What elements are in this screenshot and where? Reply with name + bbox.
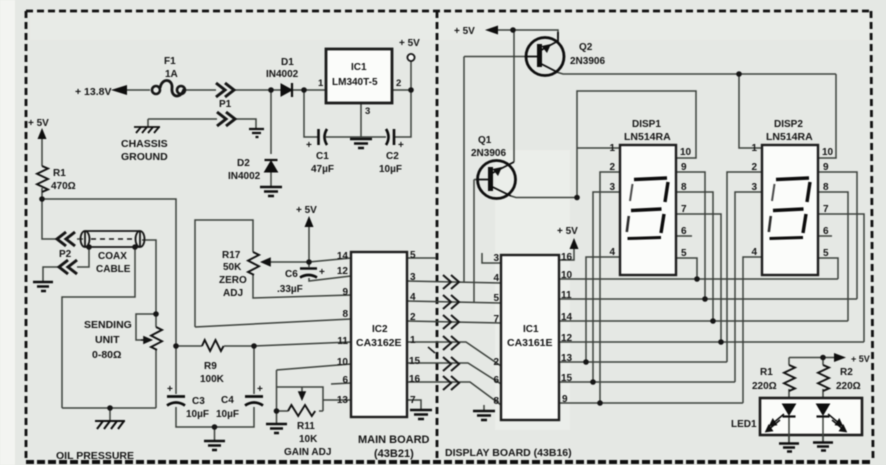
svg-text:8: 8 [823, 182, 829, 193]
svg-text:R1: R1 [53, 168, 66, 179]
svg-text:CHASSIS: CHASSIS [121, 138, 168, 150]
svg-text:R17: R17 [222, 250, 241, 261]
svg-text:9: 9 [562, 394, 568, 405]
svg-text:1: 1 [410, 335, 416, 346]
svg-text:470Ω: 470Ω [51, 181, 76, 192]
svg-text:CABLE: CABLE [96, 264, 131, 275]
svg-text:12: 12 [337, 266, 349, 277]
svg-text:+ 5V: + 5V [296, 205, 317, 216]
svg-text:+ 5V: + 5V [454, 26, 475, 37]
svg-text:2N3906: 2N3906 [570, 56, 605, 67]
svg-text:P1: P1 [219, 99, 232, 110]
svg-text:50K: 50K [223, 262, 242, 273]
svg-text:3: 3 [410, 272, 416, 283]
svg-text:IN4002: IN4002 [228, 171, 261, 182]
svg-text:+: + [306, 140, 312, 151]
svg-text:1: 1 [609, 143, 615, 154]
svg-text:14: 14 [337, 251, 349, 262]
svg-text:4: 4 [751, 247, 757, 258]
svg-text:9: 9 [681, 162, 687, 173]
svg-text:.33µF: .33µF [277, 284, 303, 295]
svg-text:8: 8 [681, 182, 687, 193]
svg-text:3: 3 [609, 182, 615, 193]
svg-text:47µF: 47µF [311, 164, 334, 175]
svg-text:IC2: IC2 [372, 324, 388, 335]
svg-text:UNIT: UNIT [95, 334, 120, 346]
svg-text:220Ω: 220Ω [836, 381, 861, 392]
svg-text:SENDING: SENDING [84, 319, 132, 331]
svg-text:16: 16 [561, 252, 573, 263]
svg-text:5: 5 [823, 248, 829, 259]
svg-text:ZERO: ZERO [219, 275, 247, 286]
svg-text:ADJ: ADJ [223, 288, 243, 299]
svg-text:LN514RA: LN514RA [624, 131, 671, 143]
svg-text:7: 7 [493, 314, 499, 325]
svg-text:IC1: IC1 [351, 62, 367, 73]
svg-text:12: 12 [561, 333, 573, 344]
svg-text:+: + [257, 384, 263, 395]
svg-text:6: 6 [823, 226, 829, 237]
svg-text:6: 6 [342, 375, 348, 386]
svg-text:C1: C1 [316, 151, 329, 162]
svg-text:4: 4 [493, 273, 499, 284]
svg-text:1: 1 [318, 78, 324, 89]
svg-text:6: 6 [681, 226, 687, 237]
svg-text:1A: 1A [165, 69, 178, 80]
svg-text:(43B21): (43B21) [374, 448, 414, 460]
svg-text:13: 13 [561, 353, 573, 364]
svg-text:2: 2 [493, 357, 499, 368]
svg-text:R1: R1 [760, 367, 773, 378]
svg-text:7: 7 [681, 204, 687, 215]
svg-text:R9: R9 [204, 361, 217, 372]
svg-text:C2: C2 [386, 151, 399, 162]
svg-text:2: 2 [751, 162, 757, 173]
svg-text:7: 7 [410, 395, 416, 406]
svg-text:OIL PRESSURE: OIL PRESSURE [56, 450, 134, 462]
svg-text:IC1: IC1 [523, 324, 539, 335]
svg-text:C4: C4 [221, 395, 234, 406]
svg-text:Q1: Q1 [478, 135, 492, 146]
svg-text:10: 10 [561, 270, 573, 281]
svg-text:220Ω: 220Ω [752, 381, 777, 392]
svg-text:F1: F1 [164, 56, 176, 67]
svg-text:+: + [167, 384, 173, 395]
svg-text:C6: C6 [285, 269, 298, 280]
svg-text:2: 2 [609, 162, 615, 173]
svg-text:10: 10 [337, 357, 349, 368]
svg-text:LN514RA: LN514RA [766, 131, 813, 143]
svg-text:0-80Ω: 0-80Ω [92, 349, 121, 361]
svg-text:10: 10 [680, 147, 692, 158]
svg-text:COAX: COAX [98, 251, 127, 262]
svg-text:10: 10 [822, 147, 834, 158]
svg-text:DISP1: DISP1 [632, 119, 661, 130]
svg-text:+ 5V: + 5V [557, 226, 578, 237]
svg-text:2: 2 [410, 312, 416, 323]
svg-text:R2: R2 [840, 367, 853, 378]
svg-text:5: 5 [681, 248, 687, 259]
svg-text:8: 8 [342, 309, 348, 320]
svg-text:2N3906: 2N3906 [471, 148, 506, 159]
svg-text:+ 5V: + 5V [851, 354, 870, 364]
svg-text:10K: 10K [299, 434, 318, 445]
svg-text:+ 5V: + 5V [399, 38, 420, 49]
svg-text:9: 9 [342, 287, 348, 298]
svg-text:100K: 100K [200, 374, 225, 385]
svg-text:GROUND: GROUND [121, 151, 168, 163]
svg-text:MAIN BOARD: MAIN BOARD [358, 434, 430, 446]
svg-text:DISP2: DISP2 [774, 119, 803, 130]
svg-text:15: 15 [409, 356, 421, 367]
svg-text:3: 3 [493, 253, 499, 264]
svg-text:4: 4 [410, 292, 416, 303]
svg-text:+ 13.8V: + 13.8V [75, 86, 112, 98]
svg-text:10µF: 10µF [186, 409, 209, 420]
svg-text:5: 5 [410, 250, 416, 261]
svg-text:11: 11 [337, 336, 348, 347]
svg-text:13: 13 [337, 395, 349, 406]
svg-text:C3: C3 [192, 396, 205, 407]
svg-text:Q2: Q2 [579, 42, 593, 53]
svg-text:9: 9 [823, 162, 829, 173]
svg-text:16: 16 [409, 374, 421, 385]
svg-text:10µF: 10µF [216, 409, 239, 420]
svg-text:15: 15 [561, 373, 573, 384]
svg-text:LM340T-5: LM340T-5 [332, 77, 378, 88]
svg-text:10µF: 10µF [379, 164, 402, 175]
svg-text:+: + [398, 140, 404, 151]
svg-text:1: 1 [751, 143, 757, 154]
svg-text:D2: D2 [237, 158, 250, 169]
svg-text:3: 3 [365, 106, 370, 117]
svg-text:7: 7 [823, 204, 829, 215]
svg-text:D1: D1 [281, 57, 294, 68]
svg-text:P2: P2 [59, 249, 72, 260]
svg-text:11: 11 [561, 290, 572, 301]
svg-text:CA3161E: CA3161E [507, 337, 553, 349]
svg-text:LED1: LED1 [731, 419, 757, 430]
svg-text:6: 6 [493, 375, 499, 386]
svg-text:+ 5V: + 5V [28, 118, 49, 129]
svg-text:+: + [319, 267, 325, 278]
svg-text:3: 3 [751, 182, 757, 193]
svg-text:4: 4 [609, 247, 615, 258]
svg-text:CA3162E: CA3162E [356, 337, 402, 349]
svg-text:2: 2 [396, 78, 401, 89]
svg-text:5: 5 [493, 293, 499, 304]
svg-text:DISPLAY BOARD (43B16): DISPLAY BOARD (43B16) [445, 447, 572, 459]
svg-text:IN4002: IN4002 [266, 69, 299, 80]
svg-text:R11: R11 [297, 421, 315, 432]
svg-text:14: 14 [561, 312, 573, 323]
svg-text:GAIN ADJ: GAIN ADJ [284, 447, 331, 458]
svg-text:8: 8 [493, 396, 499, 407]
